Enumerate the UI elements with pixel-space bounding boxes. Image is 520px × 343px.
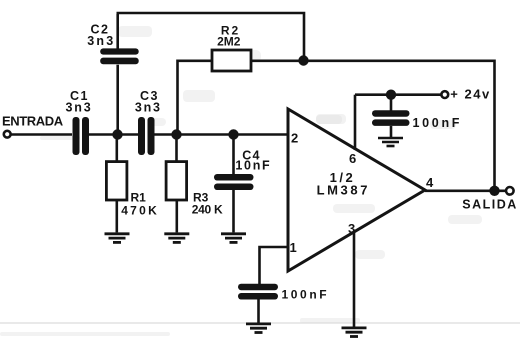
svg-text:470K: 470K (121, 203, 159, 217)
svg-text:3: 3 (348, 221, 355, 236)
capacitor C5 100nF (372, 110, 410, 126)
node A junction (112, 129, 122, 139)
terminal +24v (441, 91, 448, 98)
wire R3 bottom stem (176, 199, 179, 232)
wire C2 bottom stem (116, 65, 119, 135)
svg-text:100nF: 100nF (413, 116, 463, 130)
label R1 value (121, 191, 159, 218)
label C3 value (135, 89, 162, 114)
node F junction (output) (489, 186, 499, 196)
wire top feedback run (117, 13, 305, 60)
svg-text:6: 6 (349, 151, 356, 166)
resistor R2 (212, 50, 251, 71)
wire C4 top stem (232, 135, 235, 176)
wire output pin 4 (425, 190, 505, 193)
wire pin 6 stem (354, 95, 357, 150)
svg-text:SALIDA: SALIDA (462, 197, 518, 211)
wire pin 1 hook (260, 247, 289, 285)
wire feedback to output (304, 61, 495, 190)
wire input segment (11, 133, 72, 136)
capacitor C2 (100, 48, 139, 64)
ground R1 (105, 234, 130, 243)
ground R3 (164, 234, 189, 243)
wire R1 bottom stem (116, 199, 119, 232)
node B junction (R2/R3 tap) (171, 129, 181, 139)
svg-text:+ 24v: + 24v (450, 87, 490, 102)
svg-text:1: 1 (290, 240, 297, 255)
terminal ENTRADA (4, 131, 11, 138)
capacitor C5 100nF top stem (390, 95, 393, 111)
capacitor C3 (138, 117, 155, 155)
capacitor C6 bottom stem (257, 300, 260, 323)
capacitor C5 bottom stem (390, 126, 393, 137)
ground C6 (246, 324, 271, 333)
scan artifact line (0, 322, 520, 324)
wire R3 top stem (175, 135, 178, 163)
label R3 value (192, 191, 223, 217)
label R2 value (217, 23, 241, 48)
label C1 value (66, 89, 93, 114)
wire +24v rail (355, 93, 442, 96)
svg-text:LM387: LM387 (317, 183, 370, 198)
svg-text:4: 4 (426, 175, 434, 190)
ground C4 (221, 234, 246, 243)
label C4 value (235, 148, 271, 172)
node E junction (bypass cap) (386, 90, 396, 100)
capacitor C6 100nF bottom (238, 284, 278, 300)
wire R2 left lead (178, 61, 213, 135)
svg-text:3n3: 3n3 (87, 34, 115, 48)
label op-amp 1/2 LM387 (317, 170, 370, 198)
svg-text:2: 2 (291, 131, 298, 146)
label C2 value (87, 23, 115, 49)
svg-text:2M2: 2M2 (217, 35, 241, 49)
resistor R1 (106, 162, 127, 200)
wire R2 right lead (251, 59, 304, 62)
node D junction (feedback) (298, 55, 308, 65)
op-amp U1 LM387 (288, 109, 425, 271)
node C junction (C4 tap) (228, 129, 238, 139)
svg-text:3n3: 3n3 (66, 101, 93, 115)
terminal SALIDA (506, 187, 514, 195)
wire C1 to node A to C3 (89, 133, 138, 136)
ground C5 (378, 138, 403, 146)
wire C4 bottom stem (232, 190, 235, 232)
capacitor C4 (214, 174, 254, 190)
wire C2 top stem (116, 14, 119, 49)
svg-text:3n3: 3n3 (135, 101, 162, 115)
ground pin 3 (342, 328, 367, 337)
svg-text:240 K: 240 K (192, 202, 223, 216)
wire C3 to op-amp pin 2 (155, 133, 289, 136)
wire pin 3 stem (353, 232, 356, 327)
svg-text:100nF: 100nF (282, 287, 330, 301)
svg-text:10nF: 10nF (235, 159, 271, 173)
resistor R3 (166, 162, 187, 200)
wire R1 top stem (116, 135, 119, 163)
svg-text:ENTRADA: ENTRADA (2, 114, 64, 129)
capacitor C1 (73, 117, 90, 155)
